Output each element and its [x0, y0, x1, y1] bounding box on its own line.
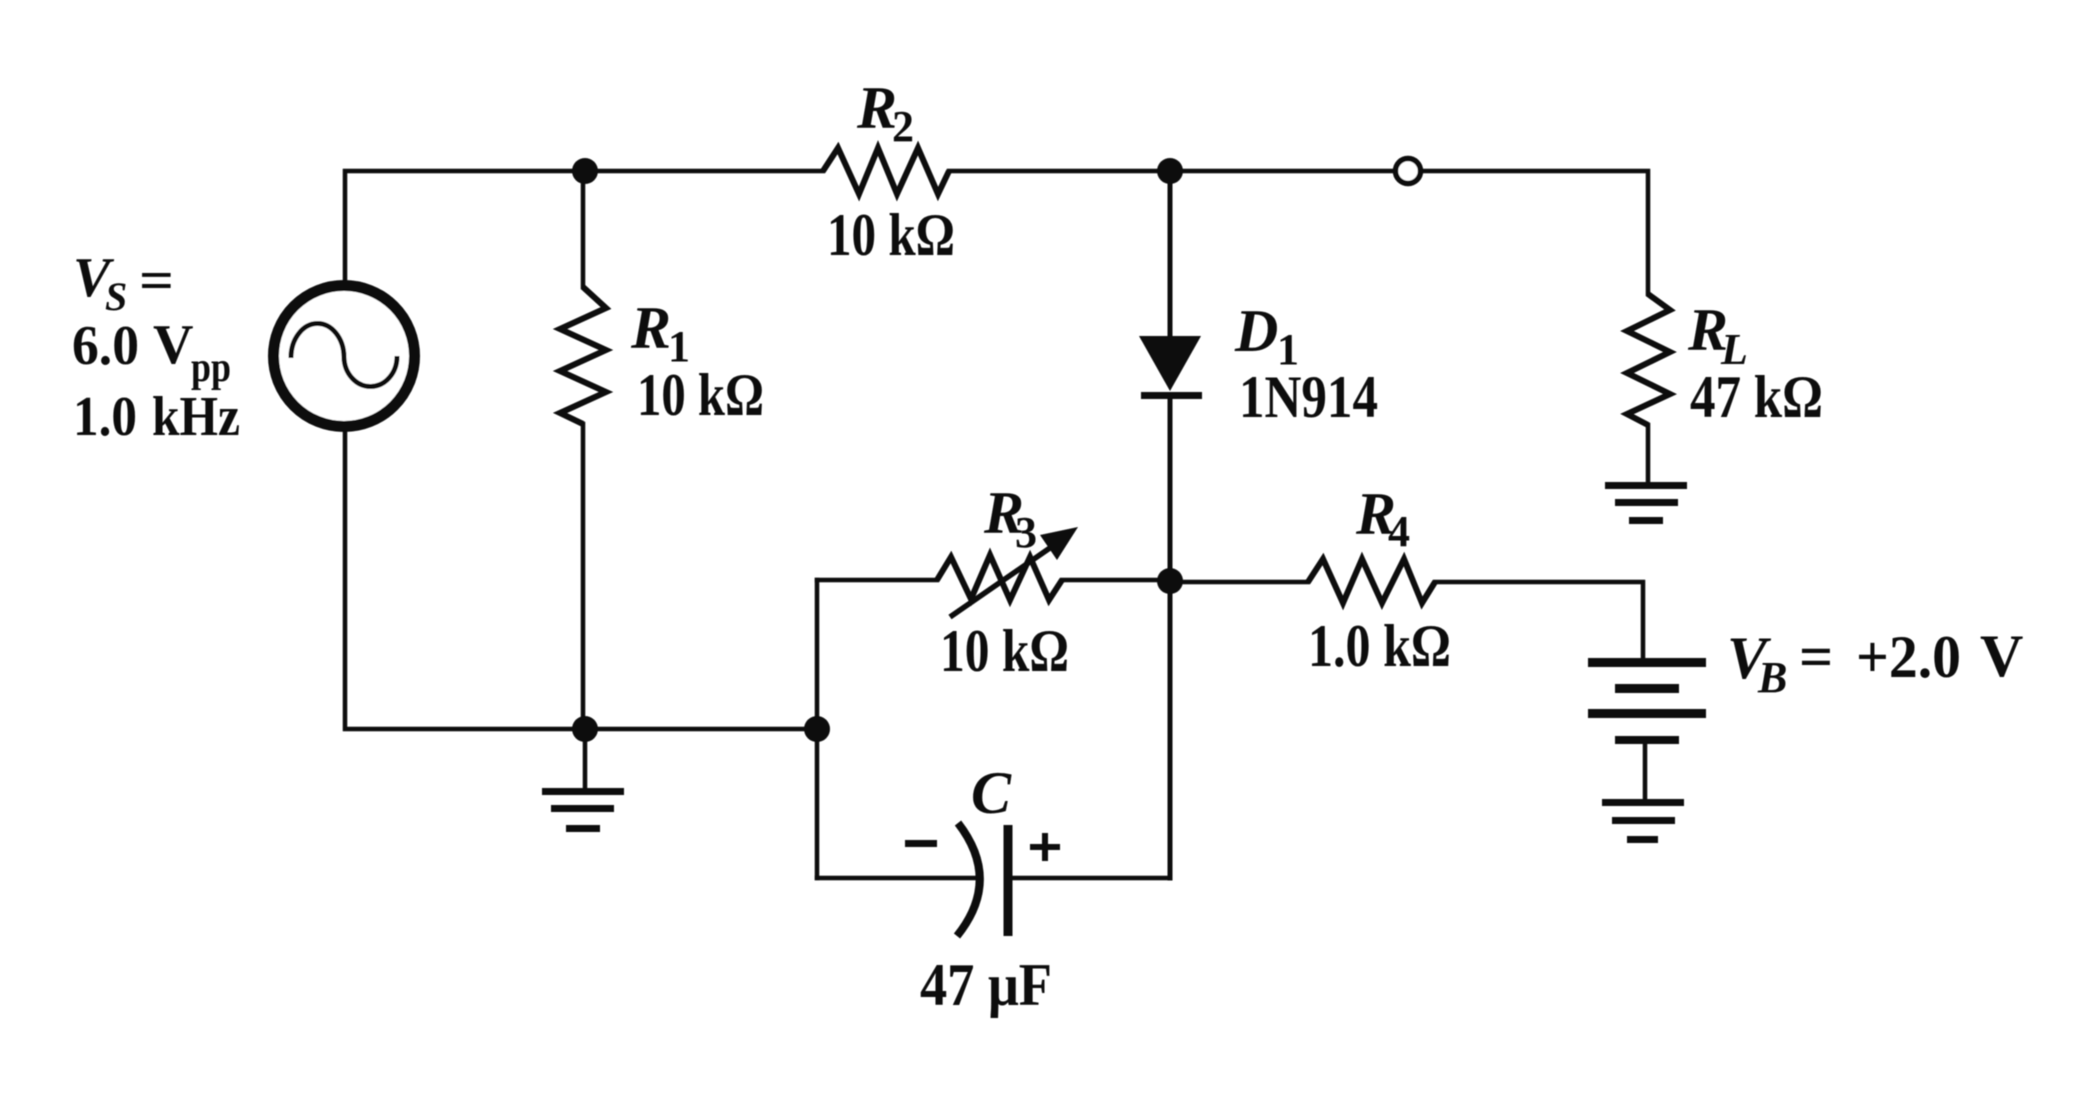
svg-text:10 kΩ: 10 kΩ: [940, 618, 1069, 684]
svg-text:10 kΩ: 10 kΩ: [827, 202, 955, 268]
svg-text:=: =: [139, 250, 174, 312]
svg-text:V: V: [1980, 623, 2023, 689]
svg-text:10 kΩ: 10 kΩ: [637, 362, 764, 428]
svg-text:kHz: kHz: [152, 386, 240, 448]
svg-text:R: R: [856, 75, 897, 141]
svg-text:47 kΩ: 47 kΩ: [1690, 364, 1823, 430]
svg-text:6.0: 6.0: [72, 315, 139, 377]
svg-text:1.0: 1.0: [73, 386, 137, 448]
svg-text:pp: pp: [191, 345, 231, 391]
svg-text:=: =: [1799, 624, 1833, 690]
svg-text:V: V: [153, 314, 193, 376]
svg-text:+2.0: +2.0: [1856, 624, 1961, 690]
svg-text:1.0 kΩ: 1.0 kΩ: [1308, 613, 1451, 679]
svg-text:47 μF: 47 μF: [920, 952, 1052, 1018]
svg-text:R: R: [630, 295, 671, 361]
svg-text:C: C: [971, 760, 1012, 826]
svg-text:1N914: 1N914: [1239, 364, 1378, 430]
svg-text:2: 2: [892, 102, 914, 151]
svg-text:D: D: [1234, 298, 1278, 364]
svg-text:4: 4: [1388, 507, 1410, 556]
svg-text:B: B: [1757, 653, 1787, 702]
svg-text:3: 3: [1015, 508, 1037, 557]
svg-text:S: S: [105, 274, 127, 319]
